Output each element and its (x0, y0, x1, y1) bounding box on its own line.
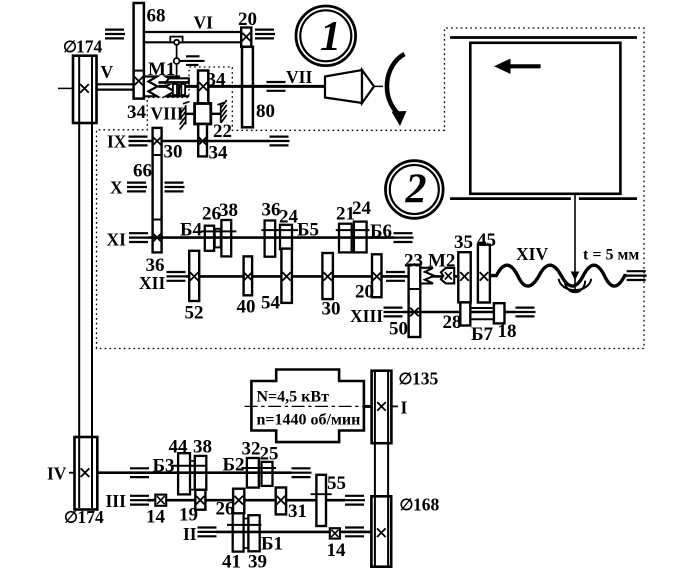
worm VIII right support with hatching (218, 100, 227, 123)
shift linkage pivot circles and rod (174, 40, 180, 79)
bearing right of shaft XI (394, 233, 414, 242)
shaft I stub motor to pulley (364, 405, 372, 408)
svg-text:174: 174 (78, 507, 105, 527)
svg-text:I: I (401, 398, 408, 418)
svg-text:30: 30 (322, 299, 341, 320)
cross on gear 52 (190, 272, 199, 281)
svg-text:25: 25 (260, 444, 279, 465)
center stub left of lower pulley (69, 472, 75, 474)
svg-text:18: 18 (498, 321, 517, 342)
svg-text:t = 5 мм: t = 5 мм (583, 247, 639, 264)
bearing left of shaft II (198, 528, 218, 537)
gear 30 on shaft XII (322, 253, 333, 299)
sliding block B4 gears 26-38 on shaft XI (205, 220, 231, 256)
bearing right of shaft XIII (516, 308, 536, 317)
svg-text:М2: М2 (428, 251, 455, 272)
shaft II (216, 531, 371, 534)
svg-text:38: 38 (219, 200, 238, 221)
bearing left of shaft IX (129, 137, 149, 146)
shaft XII (186, 275, 459, 278)
dotted boundary of gearbox groups 1 and 2 (97, 28, 645, 349)
cross on pulley D135 (377, 402, 386, 411)
svg-text:Б7: Б7 (471, 324, 494, 345)
center stub left of upper pulley (58, 87, 73, 89)
bearing right of leadscrew XIV (627, 271, 647, 280)
sliding block B6 gears 21-24 on shaft XI (339, 222, 367, 253)
svg-text:22: 22 (213, 121, 232, 142)
table lower guideway line (450, 197, 637, 200)
svg-text:174: 174 (76, 37, 103, 57)
cross on pulley D168 (377, 528, 386, 537)
svg-text:III: III (106, 491, 127, 511)
feed direction arrow inside table (494, 59, 541, 74)
leadscrew XIV wavy line (490, 265, 627, 286)
cross on lower pulley (81, 468, 90, 477)
bearing left of shaft X (127, 183, 147, 192)
svg-text:1: 1 (320, 14, 341, 60)
clutch M2 fixed jaw (420, 268, 434, 284)
circled group number 1 (296, 6, 356, 66)
svg-text:XI: XI (107, 230, 127, 250)
gear 34 on shaft VII (198, 71, 208, 104)
svg-text:168: 168 (413, 495, 440, 515)
svg-text:34: 34 (207, 70, 227, 91)
circled group number 2 (386, 161, 444, 219)
cross on gear 35 (460, 272, 469, 281)
clutch M1 sliding sleeve (159, 78, 190, 96)
clutch M1 left jaw (144, 77, 158, 97)
svg-text:VIII: VIII (151, 104, 184, 124)
sliding block B3 gears 44-38 on shaft IV (178, 453, 206, 494)
bearing right of shaft X (165, 183, 185, 192)
svg-text:Б5: Б5 (297, 220, 319, 241)
cross on gear 30 at shaft IX (153, 137, 162, 146)
gear 18 on shaft XIII (494, 303, 505, 323)
svg-text:35: 35 (454, 232, 473, 253)
cross on gear 34 (shaft V) (134, 77, 143, 86)
bearing left of shaft VI (105, 30, 125, 39)
table upper guideway line (450, 36, 637, 39)
curved rotation arrow (387, 54, 407, 126)
svg-text:V: V (101, 62, 114, 82)
sliding block B5 gears 36-24 on shaft XI (265, 221, 292, 257)
motor housing (251, 370, 364, 443)
svg-text:41: 41 (222, 552, 241, 573)
svg-text:Б3: Б3 (153, 456, 175, 477)
svg-text:55: 55 (327, 473, 346, 494)
svg-text:VI: VI (194, 13, 214, 33)
svg-text:80: 80 (256, 101, 275, 122)
gear 34 on shaft IX (lower part of column) (198, 124, 207, 156)
bearing middle of shaft XII (386, 272, 406, 281)
gear block 68-34 on shafts VI/V (134, 3, 144, 99)
bracket of block B5 (261, 229, 298, 231)
shaft VII main line (159, 85, 326, 88)
gear 14 on shaft II (boxed cross) (330, 528, 340, 538)
bearing on shaft VII (267, 82, 287, 91)
svg-text:31: 31 (288, 501, 307, 522)
sliding block B1 gears 41-39 on shaft II (233, 513, 260, 551)
svg-text:26: 26 (216, 499, 235, 520)
svg-text:II: II (183, 524, 197, 544)
gear 19 on shaft III (195, 490, 205, 510)
svg-text:34: 34 (209, 143, 229, 164)
gear 45 on shaft XII (478, 245, 490, 303)
cross on gear 26 (234, 496, 243, 505)
shaft V (double line) (97, 84, 134, 89)
svg-text:IX: IX (107, 132, 127, 152)
bearing right of shaft IX (270, 137, 290, 146)
cross on gear 34 (shaft VII) (199, 82, 208, 91)
svg-text:50: 50 (389, 319, 408, 340)
shaft III (148, 499, 346, 502)
bracket of block B4 (201, 230, 236, 232)
gear 26 on shaft III (233, 489, 244, 514)
gear 54 on shaft XII (281, 249, 292, 303)
shaft IX (149, 140, 270, 143)
svg-text:Б1: Б1 (261, 534, 283, 555)
cross on gear 36 at shaft XI (153, 233, 162, 242)
gear column 30-66-36 on shafts IX/X/XI (153, 128, 162, 252)
svg-text:14: 14 (146, 507, 166, 528)
svg-text:∅: ∅ (399, 371, 413, 388)
gear 20 on shaft XII (372, 254, 382, 297)
svg-text:39: 39 (248, 552, 267, 573)
machine table (square) (470, 43, 620, 194)
svg-text:X: X (110, 178, 123, 198)
svg-text:23: 23 (404, 251, 423, 272)
cross on gear 34 at shaft IX (198, 137, 207, 146)
svg-text:68: 68 (147, 6, 166, 27)
bearing right of shaft VI (255, 30, 275, 39)
svg-text:24: 24 (279, 207, 299, 228)
svg-text:n=1440 об/мин: n=1440 об/мин (257, 412, 361, 429)
bearing left of shaft XI (129, 233, 149, 242)
cross on gear 20 (242, 33, 251, 42)
svg-text:XIV: XIV (516, 244, 548, 264)
svg-text:20: 20 (355, 282, 374, 303)
svg-text:∅: ∅ (63, 39, 77, 56)
svg-text:VII: VII (286, 67, 312, 87)
gear column 23-50 on shafts XII/XIII (409, 265, 421, 337)
svg-text:44: 44 (169, 437, 189, 458)
pulley D174 lower (shaft IV) (75, 437, 98, 510)
svg-text:Б6: Б6 (370, 221, 392, 242)
bracket of block B3 (172, 465, 206, 467)
cross on gear 45 (480, 272, 489, 281)
worm VIII left support with hatching (180, 102, 190, 130)
svg-text:45: 45 (477, 230, 496, 251)
bracket of block B2 (242, 467, 277, 469)
motor axis dash-dot centerline (245, 405, 368, 407)
shaft VI (double line) (144, 32, 241, 42)
cross on gear 19 (196, 496, 205, 505)
cross on gear 31 (277, 496, 286, 505)
svg-text:М1: М1 (148, 59, 175, 80)
svg-text:38: 38 (193, 437, 212, 458)
pulley D174 upper (shaft V) (73, 56, 97, 123)
svg-text:IV: IV (47, 464, 67, 484)
svg-text:Б4: Б4 (180, 220, 203, 241)
gear 20 on shaft VI (241, 28, 251, 47)
svg-text:2: 2 (405, 167, 427, 213)
svg-text:20: 20 (238, 9, 257, 30)
arrowhead on link rod (571, 272, 580, 281)
cross on upper pulley (80, 84, 89, 93)
sleeve of block B7 between gears 28 and 18 (470, 308, 494, 319)
svg-text:40: 40 (237, 297, 256, 318)
bearing right of shaft IV (292, 468, 312, 477)
cross on gear 30 (323, 272, 332, 281)
gear 14 on shaft III (boxed cross) (155, 495, 166, 506)
svg-text:N=4,5 кВт: N=4,5 кВт (257, 389, 330, 406)
clutch M1 right jaw (166, 77, 180, 97)
pulley D135 on shaft I (372, 371, 392, 444)
belt left vertical run (79, 57, 92, 508)
svg-text:52: 52 (185, 303, 204, 324)
svg-text:30: 30 (164, 142, 183, 163)
gear 55 on shaft III (311, 475, 332, 526)
svg-text:34: 34 (127, 102, 147, 123)
bearing right of shaft II (345, 528, 365, 537)
svg-text:135: 135 (412, 369, 439, 389)
gear 52 on shaft XII (189, 251, 199, 301)
clutch M2 sliding half with cross (441, 268, 454, 284)
bracket of block B1 (227, 524, 262, 526)
sliding block B2 gears 32-25 on shaft IV (247, 458, 273, 488)
cone (tool) on shaft VII end (325, 70, 383, 103)
svg-text:24: 24 (352, 198, 372, 219)
svg-text:XII: XII (139, 273, 165, 293)
bearing right of shaft III (345, 496, 365, 505)
pulley D168 on shaft II (371, 496, 391, 566)
shaft XI (149, 236, 395, 239)
svg-text:36: 36 (262, 200, 281, 221)
svg-text:Б2: Б2 (223, 455, 245, 476)
svg-text:∅: ∅ (64, 510, 78, 527)
shaft IV (97, 471, 291, 474)
gear 31 on shaft III (276, 488, 286, 515)
svg-text:28: 28 (443, 312, 462, 333)
shaft XIII (403, 311, 516, 314)
gear 40 on shaft XII (244, 256, 253, 295)
cross on gear 50 at shaft XIII (410, 308, 419, 317)
svg-text:66: 66 (133, 161, 152, 182)
bearing left of shaft IV (130, 468, 150, 477)
svg-text:19: 19 (179, 505, 198, 526)
cross on gear 54 (282, 272, 291, 281)
svg-text:54: 54 (261, 293, 281, 314)
bearing left of shaft XII (167, 272, 187, 281)
svg-text:14: 14 (327, 540, 347, 561)
gear 80 on shaft VII (242, 47, 253, 128)
svg-text:XIII: XIII (350, 306, 383, 326)
shift linkage box on shaft VI (170, 37, 182, 43)
shaft I stub to label (391, 405, 398, 407)
svg-text:∅: ∅ (400, 497, 414, 514)
bearing left of shaft XIII (384, 308, 404, 317)
link rod from table to leadscrew nut (574, 194, 576, 292)
gear column 35-28 on shafts XII/XIII (458, 252, 470, 325)
cross on gear 20 (373, 272, 382, 281)
belt right vertical run (375, 372, 388, 566)
detent lever of shift linkage (180, 56, 205, 65)
bearing left of shaft III (130, 496, 150, 505)
worm VIII block (187, 104, 221, 125)
cross on gear 40 (244, 272, 253, 281)
leadscrew nut half-arcs (559, 279, 592, 292)
bracket of block B6 (336, 229, 370, 231)
